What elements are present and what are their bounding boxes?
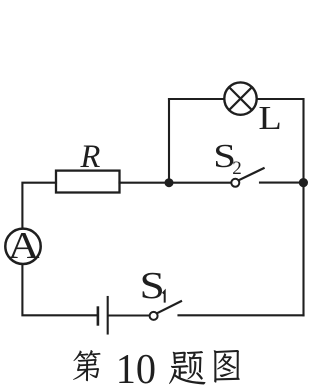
- ammeter letter A: [8, 224, 40, 266]
- switch S1 lever: [157, 301, 181, 313]
- wire lamp to top-right corner, down right side: [257, 99, 304, 315]
- wire S2 to junction B: [260, 182, 303, 184]
- junction node B (dot): [299, 178, 308, 187]
- label S1 letter S: [140, 265, 165, 307]
- label S2 letter S: [213, 138, 236, 175]
- switch S2 lever: [239, 168, 264, 180]
- svg-text:A: A: [8, 224, 40, 266]
- lamp X stroke 2: [229, 87, 252, 110]
- svg-text:S: S: [140, 265, 165, 307]
- ammeter A circle: [5, 229, 40, 264]
- label S1 subscript 1: [163, 291, 165, 302]
- wire branch vertical up from junction A: [168, 99, 170, 183]
- wire junction A to switch S2: [169, 182, 231, 184]
- switch S1 pivot circle: [150, 312, 158, 320]
- battery positive plate (tall): [107, 297, 109, 334]
- wire battery to switch S1: [109, 314, 149, 316]
- battery negative plate (short): [97, 308, 100, 325]
- svg-text:R: R: [80, 139, 101, 175]
- caption char 第: [73, 350, 101, 381]
- wire: ammeter top, up left side, top-left corner, right to resistor: [22, 183, 56, 229]
- wire top to lamp: [169, 98, 224, 100]
- caption char 图: [214, 350, 240, 383]
- svg-text:10: 10: [116, 347, 156, 387]
- label L: [258, 99, 281, 136]
- resistor R: [56, 171, 120, 193]
- switch S2 pivot circle: [231, 179, 239, 187]
- svg-text:2: 2: [232, 158, 242, 179]
- svg-text:L: L: [258, 99, 281, 136]
- lamp X stroke 1: [229, 87, 252, 110]
- caption char 题: [169, 351, 206, 385]
- junction node A (dot): [165, 178, 174, 187]
- lamp L circle: [224, 82, 256, 114]
- wire resistor to junction A: [120, 182, 170, 184]
- wire: ammeter bottom, down left side, bottom-left corner, right to battery: [22, 265, 97, 316]
- wire S1 to bottom-right corner: [179, 314, 304, 316]
